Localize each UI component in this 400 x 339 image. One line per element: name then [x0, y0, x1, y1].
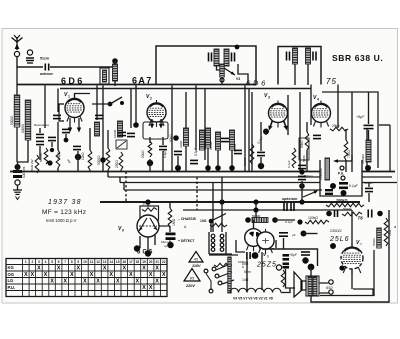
wire IF1 to rail: [221, 77, 223, 85]
wire: [196, 177, 198, 210]
junction: [253, 207, 258, 212]
svg-text:µF: µF: [67, 159, 71, 163]
junction: [245, 217, 251, 223]
volume potentiometer: [325, 158, 330, 180]
capacitor C24: [365, 188, 373, 191]
svg-text:X: X: [70, 272, 74, 278]
resistor R5: [106, 148, 110, 170]
svg-text:18: 18: [136, 260, 140, 264]
coil L6b: [206, 128, 211, 148]
resistor R12 20k: [330, 127, 348, 131]
wire heater end: [281, 288, 290, 293]
capacitor C6: [48, 137, 56, 140]
svg-text:X: X: [37, 266, 41, 272]
svg-text:X: X: [83, 279, 87, 285]
resistor R17 200k: [326, 203, 364, 207]
wire V4 box left: [310, 85, 312, 126]
earth terminal: [27, 50, 32, 55]
wire socket bottom: [209, 254, 238, 256]
svg-text:13: 13: [103, 260, 107, 264]
switch pivot: [209, 219, 214, 224]
capacitor electrolytic bank a: [283, 254, 290, 257]
svg-text:12kΩ: 12kΩ: [81, 152, 85, 160]
resistor R3: [44, 148, 48, 164]
resistor R14: [35, 155, 39, 173]
ground chassis: [13, 190, 22, 200]
capacitor IF2 secondary: [313, 52, 316, 61]
wire: [286, 269, 296, 288]
tube V3 6D6: [269, 101, 288, 128]
svg-text:X: X: [103, 266, 107, 272]
resistor R11 50k: [305, 132, 309, 150]
socket pin L2: [211, 239, 215, 243]
svg-text:85: 85: [190, 276, 195, 281]
wire IF1 secondary out: [238, 64, 248, 85]
wire IF2 can outline: [278, 47, 321, 85]
wire eye to divider: [159, 225, 170, 227]
terminal lamp: [276, 265, 281, 270]
wire: [177, 156, 179, 168]
wire to output stage: [304, 233, 318, 235]
junction: [299, 169, 304, 174]
capacitor C17 8uF: [364, 125, 374, 128]
wire: [89, 128, 91, 172]
svg-text:8: 8: [71, 260, 73, 264]
junction: [299, 183, 305, 189]
capacitor C20: [298, 176, 306, 179]
tube V2 6A7: [147, 100, 166, 127]
wire loop inner: [353, 289, 373, 295]
pilot terminal: [204, 269, 208, 273]
junction: [173, 135, 179, 141]
svg-text:X: X: [142, 266, 146, 272]
coil choke: [377, 228, 382, 248]
PU terminal 1: [340, 166, 344, 170]
svg-text:+8µF: +8µF: [289, 253, 298, 257]
table row KG: [8, 265, 160, 271]
wire: [301, 181, 303, 202]
wire: [294, 64, 296, 85]
svg-text:up: up: [164, 244, 168, 248]
wire: [96, 86, 98, 121]
junction OT top: [308, 264, 315, 271]
wire V1 plate top: [75, 94, 91, 99]
terminal IF1: [220, 78, 224, 82]
wire rail steps: [108, 172, 124, 191]
svg-text:230Ω/2: 230Ω/2: [330, 229, 342, 233]
resistor 50ohm: [281, 270, 285, 287]
svg-text:15: 15: [116, 260, 120, 264]
wire bottom rail 1: [10, 171, 395, 173]
capacitor antenna series: [45, 64, 48, 71]
junction: [47, 160, 52, 165]
svg-text:10: 10: [83, 260, 87, 264]
svg-text:Instr 1000 Ω p.V: Instr 1000 Ω p.V: [46, 218, 77, 223]
svg-text:P.U.: P.U.: [8, 285, 16, 290]
svg-text:X: X: [96, 279, 100, 285]
svg-text:X: X: [155, 266, 159, 272]
wire IF1 coil bottoms: [217, 66, 222, 70]
svg-text:X: X: [50, 279, 54, 285]
capacitor 8uF b: [301, 252, 310, 255]
capacitor C13: [190, 160, 198, 163]
junction HT bus: [145, 199, 150, 204]
capacitor C18: [166, 233, 176, 236]
selector contact 2: [215, 274, 219, 278]
wire: [17, 162, 19, 172]
wire: [248, 89, 250, 173]
wire: [345, 129, 347, 172]
V2 pin arrows: [151, 119, 153, 125]
coil IF1 secondary: [224, 49, 229, 66]
svg-text:12: 12: [96, 260, 100, 264]
wire: [260, 122, 262, 166]
junction: [297, 219, 302, 224]
wire HT bus: [100, 201, 360, 203]
wire top rail B: [60, 88, 311, 90]
wire loop mid: [320, 250, 374, 296]
coil L6c: [216, 132, 221, 150]
wire: [351, 92, 353, 172]
svg-text:9: 9: [122, 229, 124, 233]
wire: [185, 92, 187, 172]
table row P.U.: [8, 285, 153, 291]
coil L3 left: [25, 100, 31, 140]
switch contact: [120, 101, 124, 105]
capacitor C23: [247, 252, 250, 259]
wire rect bottoms: [247, 252, 262, 292]
svg-text:50000: 50000: [343, 207, 352, 211]
wire: [135, 86, 137, 126]
svg-text:200kΩ: 200kΩ: [336, 199, 348, 203]
socket pin R3: [220, 243, 224, 247]
svg-text:20kΩ: 20kΩ: [332, 124, 340, 128]
svg-text:19: 19: [142, 260, 146, 264]
svg-text:µF: µF: [292, 233, 296, 237]
switch box S2: [116, 140, 127, 149]
svg-text:X: X: [109, 272, 113, 278]
AVC arrow: [224, 68, 235, 75]
svg-text:50kΩ: 50kΩ: [300, 140, 304, 148]
wire V7 plate feed: [351, 210, 353, 246]
resistor R4b: [56, 150, 60, 168]
svg-text:80Ω: 80Ω: [242, 262, 249, 266]
svg-text:Potentiom: Potentiom: [319, 168, 323, 180]
wire: [149, 137, 151, 172]
junction: [272, 217, 278, 223]
wire bus 5: [183, 209, 352, 211]
svg-text:25Z5: 25Z5: [256, 262, 277, 269]
svg-text:14Ω: 14Ω: [242, 278, 249, 282]
selector contact 3: [218, 281, 222, 285]
svg-text:0.5µF: 0.5µF: [194, 148, 198, 156]
svg-text:2: 2: [150, 97, 152, 101]
V1 grid bracket: [59, 104, 64, 121]
svg-text:X: X: [63, 279, 67, 285]
svg-text:9: 9: [77, 260, 79, 264]
wire: [368, 183, 370, 203]
wire: [114, 61, 116, 64]
svg-text:20kΩ 2W: 20kΩ 2W: [30, 159, 34, 172]
socket pin L4: [211, 248, 215, 252]
svg-text:X: X: [155, 279, 159, 285]
coil L6d: [230, 130, 235, 150]
svg-text:652: 652: [326, 285, 333, 290]
svg-text:1MΩ: 1MΩ: [172, 218, 176, 226]
waveband table grid: [6, 259, 167, 297]
svg-text:220V: 220V: [185, 284, 195, 288]
capacitor C9: [118, 132, 126, 135]
svg-text:0.1µF: 0.1µF: [287, 160, 291, 168]
wire: [208, 148, 232, 172]
capacitor C15: [298, 165, 306, 168]
svg-text:6G5: 6G5: [137, 250, 154, 256]
tube V6 25Z5: [245, 226, 263, 252]
resistor heater drop: [214, 263, 232, 267]
tube V6 second section: [257, 229, 274, 254]
junction: [326, 211, 332, 217]
junction: [301, 231, 307, 237]
svg-text:6D6: 6D6: [246, 79, 268, 88]
capacitor C11: [159, 146, 167, 149]
junction: [175, 165, 181, 171]
PU terminal 2: [341, 176, 345, 180]
junction switch: [108, 102, 113, 107]
wire PU box: [320, 160, 362, 196]
capacitor IF1 primary: [209, 53, 212, 62]
wire speaker box feed: [262, 249, 318, 266]
wire elbow to cap: [236, 240, 245, 252]
svg-text:+8µF: +8µF: [356, 115, 365, 119]
svg-text:X: X: [129, 272, 133, 278]
junction: [205, 165, 211, 171]
coil IF1 avc: [220, 64, 225, 77]
svg-text:7: 7: [360, 243, 362, 247]
coil OT secondary: [313, 277, 317, 295]
V6 inner marks: [262, 238, 269, 244]
triangle 220V: [184, 269, 200, 282]
antenna coil can: [100, 68, 109, 84]
capacitor C13c: [234, 150, 242, 153]
junction below V2: [147, 160, 153, 166]
wire socket sides: [209, 232, 226, 254]
coil IF2 secondary: [306, 48, 311, 64]
output transformer T.S.: [306, 276, 319, 296]
speaker: [294, 272, 306, 297]
wire V7 cathode to loop: [351, 269, 353, 289]
capacitor C5: [36, 141, 44, 144]
wire: [17, 185, 19, 190]
svg-text:50m: 50m: [244, 270, 251, 274]
wire: [299, 92, 301, 172]
wire: [251, 92, 253, 172]
svg-text:V4 V5 V7 V3 V6 V2 V1 V8: V4 V5 V7 V3 V6 V2 V1 V8: [233, 297, 273, 301]
svg-text:LG: LG: [8, 278, 14, 283]
coil L5: [184, 128, 189, 146]
svg-text:3: 3: [268, 96, 270, 100]
resistor R13 750: [344, 140, 348, 160]
svg-text:antenne: antenne: [40, 72, 53, 76]
heater chain scallops: [230, 288, 281, 292]
table header numbers: [25, 260, 166, 264]
wire: [44, 86, 46, 129]
svg-text:X: X: [116, 279, 120, 285]
svg-text:14: 14: [109, 260, 113, 264]
svg-text:11: 11: [90, 260, 94, 264]
wire: [17, 140, 28, 162]
capacitor grid V1: [53, 115, 61, 118]
svg-text:X: X: [136, 279, 140, 285]
svg-text:230Ω: 230Ω: [179, 140, 183, 148]
svg-text:T6: T6: [358, 216, 364, 221]
wire loop outer: [311, 210, 389, 302]
wire: [65, 134, 67, 140]
coil IF1 primary: [214, 49, 219, 66]
coil IF2 primary: [293, 48, 298, 64]
wire: [92, 103, 110, 105]
wire: [107, 130, 109, 172]
svg-text:750Ω: 750Ω: [347, 150, 351, 158]
wire: [307, 64, 309, 85]
wire: [114, 81, 116, 86]
svg-text:1937 38: 1937 38: [48, 199, 82, 206]
svg-text:50000: 50000: [252, 214, 261, 218]
wire IF1 can outline: [156, 46, 256, 85]
svg-text:100kΩ: 100kΩ: [308, 216, 318, 220]
svg-text:10000: 10000: [21, 124, 25, 133]
wire: [57, 122, 59, 172]
capacitor Cx2: [291, 203, 294, 211]
junction: [133, 122, 139, 128]
svg-text:16: 16: [123, 260, 127, 264]
resistor R9: [250, 144, 254, 164]
svg-text:X: X: [142, 285, 146, 291]
junction: [339, 265, 344, 270]
capacitor C7: [73, 146, 81, 149]
svg-text:6: 6: [58, 260, 60, 264]
resistor R20 1k: [384, 218, 388, 246]
wire antenna lead: [17, 57, 43, 68]
svg-text:2: 2: [32, 260, 34, 264]
junction IF1 top: [235, 45, 240, 50]
junction: [330, 183, 336, 189]
svg-text:5: 5: [51, 260, 53, 264]
coil OT primary: [308, 277, 312, 295]
wire: [162, 137, 164, 172]
wire: [204, 89, 206, 161]
capacitor Cx1: [284, 203, 287, 211]
svg-text:X: X: [149, 272, 153, 278]
capacitor C19: [368, 210, 372, 218]
tube V4 75: [312, 101, 331, 128]
wire socket feeds: [213, 177, 222, 232]
resistor R16 1M: [168, 208, 172, 227]
junction: [100, 157, 106, 163]
capacitor C22: [339, 182, 348, 185]
wire: [130, 89, 132, 129]
resistor 10ohm: [210, 223, 227, 227]
wire bottom rail 3: [120, 182, 397, 184]
svg-text:X: X: [31, 272, 35, 278]
wire top rail A: [17, 84, 256, 86]
svg-text:1: 1: [25, 260, 27, 264]
resistor R6: [119, 152, 123, 170]
wire: [275, 219, 295, 221]
junction: [50, 148, 54, 152]
capacitor C earth 1000cm: [13, 170, 22, 178]
coil L2 left: [14, 95, 20, 127]
svg-text:spécium: spécium: [282, 197, 298, 201]
triangle 110V: [189, 252, 203, 263]
resistor R7 20k: [148, 141, 152, 157]
wire: [368, 92, 370, 140]
socket pin L3: [211, 243, 215, 247]
svg-text:10000: 10000: [113, 129, 117, 138]
coil L7: [366, 140, 371, 162]
wire stub: [379, 124, 390, 126]
capacitor C12: [174, 151, 182, 154]
junction V9 pin: [145, 250, 151, 256]
junction antenna coil top: [112, 58, 118, 64]
wire: [40, 128, 52, 160]
wire: [171, 86, 173, 173]
svg-text:1: 1: [68, 95, 70, 99]
tube V1 6D6: [65, 96, 84, 123]
svg-text:50000: 50000: [243, 157, 247, 166]
coil ballast: [252, 218, 268, 223]
wire bottom rail 4: [124, 189, 322, 191]
V6 anode blobs: [249, 232, 254, 237]
coil in can: [103, 70, 107, 82]
arrow from specium: [303, 192, 316, 198]
wire: [77, 151, 79, 172]
wire: [283, 238, 285, 249]
junction V9 pin: [134, 245, 140, 251]
junction: [258, 163, 264, 169]
junction: [252, 252, 259, 259]
socket pin L1: [211, 234, 215, 238]
wire antenna to coil: [50, 66, 114, 68]
svg-text:6: 6: [267, 255, 269, 259]
capacitor filter: [279, 233, 288, 236]
svg-text:45: 45: [194, 257, 199, 262]
junction: [215, 165, 221, 171]
svg-text:Résonance: Résonance: [34, 123, 50, 127]
svg-text:X: X: [149, 285, 153, 291]
wire: [195, 86, 197, 151]
wire: [209, 253, 232, 255]
wire: [253, 220, 255, 229]
svg-text:230Ω: 230Ω: [115, 160, 119, 168]
svg-text:– CHASSIS: – CHASSIS: [178, 217, 197, 221]
svg-text:5000: 5000: [302, 155, 306, 162]
svg-text:50kΩ: 50kΩ: [169, 134, 173, 142]
svg-text:20kΩ: 20kΩ: [141, 150, 145, 158]
coil L6: [200, 130, 205, 150]
svg-text:21: 21: [155, 260, 159, 264]
svg-text:50000: 50000: [10, 116, 14, 125]
capacitor C16: [313, 135, 321, 138]
switch S3: [211, 214, 226, 222]
V9 eye arrows: [139, 225, 157, 227]
resistor R18: [342, 212, 362, 216]
wire V6 right pins: [273, 240, 276, 249]
resistor R10: [292, 148, 296, 168]
capacitor C4: [36, 134, 44, 137]
svg-text:110V: 110V: [192, 264, 201, 268]
wire: [125, 172, 127, 203]
svg-text:X: X: [44, 272, 48, 278]
